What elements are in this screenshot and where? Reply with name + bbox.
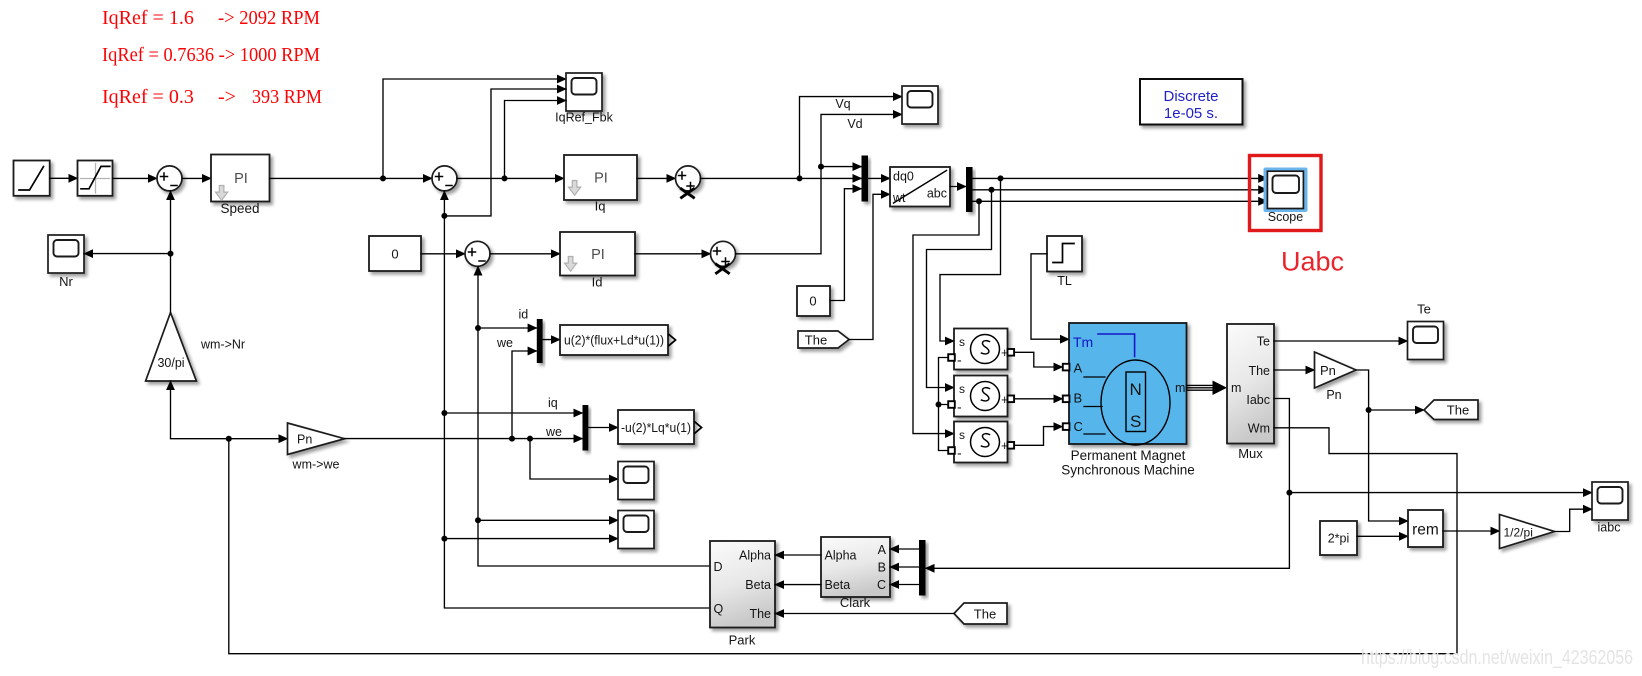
wire sum after PI Iq to mux with Vq branch: [701, 97, 903, 182]
wire we line to iq-we mux: [345, 436, 583, 442]
svg-text:393 RPM: 393 RPM: [252, 86, 322, 108]
scope Vq Vd: [902, 86, 938, 124]
svg-text:Uabc: Uabc: [1281, 247, 1344, 277]
wire wm into 30/pi: [171, 381, 229, 439]
sum junction after PI Iq: [676, 166, 701, 198]
svg-text:Alpha: Alpha: [825, 549, 857, 563]
scope Uabc selected: [1264, 168, 1308, 225]
svg-text:The: The: [1248, 364, 1270, 378]
wire phase b to scope: [973, 187, 1268, 193]
wire id branch to scope: [478, 519, 618, 521]
svg-text:Permanent Magnet: Permanent Magnet: [1071, 448, 1186, 463]
wire Te to scope: [1274, 340, 1408, 342]
demux abc outputs: [966, 167, 973, 212]
svg-text:abc: abc: [927, 187, 947, 201]
wire sum to Speed PI: [182, 177, 211, 179]
svg-text:A: A: [1074, 361, 1083, 376]
svg-text:C: C: [1074, 419, 1083, 434]
svg-text:Speed: Speed: [220, 201, 259, 216]
annotation red text line 2: [102, 44, 320, 66]
wire sum after PI Id to mux with Vd branch: [736, 114, 903, 253]
wire rem to gain: [1443, 530, 1500, 532]
annotation Uabc: [1281, 247, 1344, 277]
svg-text:m: m: [1231, 381, 1241, 395]
sum junction id loop: [465, 241, 490, 266]
svg-text:s: s: [959, 428, 965, 442]
wire Clark Alpha to Park: [775, 554, 821, 556]
svg-text:Beta: Beta: [745, 578, 771, 592]
constant 0 for zero sequence: [797, 286, 830, 316]
wire we branch to scope: [530, 439, 618, 479]
svg-text:Wm: Wm: [1248, 422, 1270, 436]
wire TL to Tm input: [1031, 254, 1069, 339]
wire 0 to id sum: [421, 253, 465, 255]
wire mux to fcn Lq: [588, 427, 618, 429]
svg-text:Iq: Iq: [595, 199, 606, 214]
mux id-we: [496, 308, 543, 364]
svg-text:Park: Park: [729, 633, 756, 648]
wire Clark Beta to Park: [775, 584, 821, 586]
wire iq branch to scope: [444, 538, 618, 540]
svg-text:A: A: [878, 543, 887, 557]
svg-text:Tm: Tm: [1073, 334, 1093, 350]
svg-text:Alpha: Alpha: [739, 549, 771, 563]
svg-text:Te: Te: [1257, 335, 1270, 349]
svg-text:0: 0: [391, 247, 398, 262]
svg-text:B: B: [878, 561, 886, 575]
svg-text:id: id: [519, 308, 529, 322]
demux abc: [919, 540, 926, 596]
svg-text:The: The: [805, 333, 827, 348]
wire source 2 plus to phase B: [1014, 398, 1062, 400]
svg-text:D: D: [714, 560, 723, 574]
svg-text:Pn: Pn: [1320, 363, 1336, 378]
wire phase b to source 2: [927, 190, 992, 388]
mux dq0 inputs: [862, 156, 869, 202]
svg-text:iabc: iabc: [1598, 521, 1621, 535]
wire id branch to id-we mux: [478, 327, 537, 329]
ramp source block: [14, 161, 50, 196]
wire The branch to rem: [1369, 410, 1408, 521]
svg-text:->: ->: [218, 86, 236, 108]
svg-text:Q: Q: [714, 602, 724, 616]
svg-text:wm->Nr: wm->Nr: [200, 338, 245, 352]
svg-text:The: The: [1447, 403, 1469, 418]
svg-text:Mux: Mux: [1238, 446, 1263, 461]
wire demux C to Clark: [890, 584, 919, 586]
sum junction after PI Id: [711, 241, 736, 273]
wire dq0 to demux: [950, 186, 966, 188]
gain 30/pi wm to Nr: [146, 313, 245, 381]
svg-text:s: s: [959, 335, 965, 349]
annotation red text line 1: [102, 7, 320, 29]
wire 2*pi to rem: [1357, 535, 1408, 537]
svg-text:m: m: [1175, 381, 1185, 395]
goto tag The: [1424, 400, 1478, 420]
wire mux to dq0 block: [868, 177, 890, 179]
gain 1/2/pi: [1500, 515, 1555, 549]
wire Park Q output feedback iq: [441, 191, 710, 608]
svg-text:Scope: Scope: [1268, 210, 1303, 224]
annotation red text line 3: [102, 86, 322, 108]
wire Pn to goto tag The: [1356, 370, 1424, 413]
Speed PI controller block: [211, 155, 270, 217]
svg-text:-: -: [957, 399, 962, 415]
scope IqRef_Fbk: [555, 73, 613, 125]
svg-text:Pn: Pn: [297, 433, 312, 447]
wire The tag to wt input: [849, 194, 890, 339]
wire phase a to scope: [973, 175, 1268, 181]
svg-text:IqRef_Fbk: IqRef_Fbk: [555, 111, 613, 125]
wire Park D output feedback id: [475, 266, 710, 566]
svg-text:IqRef = 0.3: IqRef = 0.3: [102, 86, 194, 108]
node wm junction: [226, 436, 288, 442]
wire 0 to mux third input: [830, 189, 862, 301]
wire phase c to source 3: [913, 201, 979, 433]
wire demux B to Clark: [890, 566, 919, 568]
svg-text:30/pi: 30/pi: [157, 356, 184, 370]
svg-text:-> 2092 RPM: -> 2092 RPM: [218, 7, 320, 29]
step block TL: [1047, 236, 1082, 288]
scope iabc: [1592, 482, 1628, 535]
svg-text:Synchronous Machine: Synchronous Machine: [1061, 463, 1195, 478]
saturation block: [78, 161, 113, 196]
wire m bundle to Mux: [1187, 381, 1228, 396]
wire phase a to source 1: [940, 178, 1001, 341]
constant 0 for id reference: [369, 236, 421, 271]
wire mux to fcn flux: [543, 339, 560, 341]
wire PI Id to sum: [635, 253, 711, 255]
wire iq branch to iq-we mux: [444, 412, 582, 414]
wire source 1 plus to phase A: [1014, 352, 1062, 367]
fcn block -u(2)*Lq*u(1): [618, 410, 702, 444]
svg-text:we: we: [545, 425, 562, 439]
rem block: [1408, 510, 1443, 547]
gain Pn wm to we: [288, 423, 345, 472]
wire Nr tap: [84, 251, 174, 257]
svg-text:1e-05 s.: 1e-05 s.: [1164, 105, 1218, 122]
svg-text:Nr: Nr: [59, 274, 73, 289]
scope Nr: [48, 235, 84, 289]
wire we branch to id-we mux: [512, 351, 537, 439]
svg-text:Beta: Beta: [825, 578, 851, 592]
PI Iq controller block: [564, 155, 637, 214]
constant 2*pi: [1320, 521, 1357, 555]
svg-text:-: -: [957, 352, 962, 368]
from tag The near Park: [954, 603, 1007, 624]
red highlight box: [1250, 156, 1322, 231]
wire label Vq: [835, 97, 850, 111]
svg-text:N: N: [1130, 380, 1142, 399]
svg-text:Clark: Clark: [840, 595, 871, 610]
wire label Vd: [847, 117, 862, 131]
svg-text:Te: Te: [1417, 302, 1431, 317]
svg-text:The: The: [974, 607, 996, 622]
svg-text:https://blog.csdn.net/weixin_4: https://blog.csdn.net/weixin_42362056: [1361, 647, 1633, 669]
wire Wm feedback long path: [229, 428, 1457, 654]
wire minus net of sources: [936, 358, 949, 451]
svg-text:B: B: [1074, 391, 1083, 406]
svg-text:-: -: [957, 445, 962, 461]
svg-text:Id: Id: [592, 275, 603, 290]
scope unnamed 2: [618, 511, 654, 549]
wire demux A to Clark: [890, 548, 919, 550]
PMSM machine block: [1061, 323, 1195, 478]
Clark transform block: [821, 537, 890, 610]
svg-text:PI: PI: [234, 171, 248, 187]
wire source 3 plus to phase C: [1014, 427, 1062, 446]
wire Iabc to demux and scope: [926, 399, 1593, 569]
svg-text:PI: PI: [591, 247, 605, 263]
svg-text:IqRef = 1.6: IqRef = 1.6: [102, 7, 194, 29]
wire id sum to PI Id: [490, 253, 560, 255]
svg-text:-u(2)*Lq*u(1): -u(2)*Lq*u(1): [621, 421, 691, 435]
wire gain to iabc scope: [1555, 509, 1593, 531]
wire iq sum to PI Iq with error branch: [457, 101, 566, 182]
wire The to Pn gain: [1274, 369, 1315, 371]
mux iq-we: [545, 396, 588, 451]
wire 30/pi output up to speed sum: [170, 191, 172, 313]
Discrete sample time block: [1140, 79, 1243, 125]
from tag The for wt: [798, 331, 849, 348]
svg-text:we: we: [496, 336, 513, 350]
svg-text:u(2)*(flux+Ld*u(1)): u(2)*(flux+Ld*u(1)): [564, 334, 664, 348]
svg-text:2*pi: 2*pi: [1328, 532, 1350, 546]
svg-text:wm->we: wm->we: [292, 458, 340, 472]
controlled voltage source 2: [948, 376, 1014, 417]
svg-text:TL: TL: [1057, 274, 1072, 288]
svg-text:Discrete: Discrete: [1163, 88, 1218, 105]
scope unnamed 1: [618, 462, 654, 500]
sum junction speed loop: [157, 166, 182, 191]
wire PI Iq to sum: [637, 177, 676, 179]
svg-text:PI: PI: [594, 171, 608, 187]
svg-text:0: 0: [809, 294, 816, 309]
svg-text:The: The: [749, 607, 771, 621]
svg-text:Pn: Pn: [1326, 388, 1341, 402]
svg-text:Vd: Vd: [847, 117, 862, 131]
wire saturation to speed sum: [113, 177, 158, 179]
svg-text:S: S: [1130, 412, 1141, 431]
Mux measurement block: [1227, 324, 1274, 461]
wire ramp to saturation: [50, 177, 78, 179]
fcn block u(2)*(flux+Ld*u(1)): [560, 325, 676, 355]
watermark: [1361, 647, 1633, 669]
controlled voltage source 1: [948, 329, 1014, 370]
wire phase c to scope: [973, 198, 1268, 204]
svg-text:Iabc: Iabc: [1246, 393, 1270, 407]
scope Te: [1408, 302, 1444, 360]
Park transform block: [710, 541, 775, 648]
sum junction iq loop: [432, 166, 457, 191]
wire Speed PI out to iq sum with IqRef branch: [270, 79, 567, 181]
PI Id controller block: [560, 232, 635, 290]
svg-text:1/2/pi: 1/2/pi: [1504, 526, 1533, 540]
svg-text:s: s: [959, 382, 965, 396]
svg-text:dq0: dq0: [893, 170, 914, 184]
svg-text:IqRef = 0.7636 -> 1000 RPM: IqRef = 0.7636 -> 1000 RPM: [102, 44, 320, 66]
controlled voltage source 3: [948, 422, 1014, 463]
transform block dq0 to abc: [890, 167, 950, 207]
gain Pn: [1315, 352, 1357, 402]
node iq feedback junction: [441, 89, 566, 219]
wire The tag to Park: [775, 613, 954, 615]
svg-text:iq: iq: [548, 396, 558, 410]
svg-text:rem: rem: [1412, 522, 1439, 539]
svg-text:Vq: Vq: [835, 97, 850, 111]
svg-text:wt: wt: [892, 191, 906, 205]
svg-text:C: C: [877, 578, 886, 592]
